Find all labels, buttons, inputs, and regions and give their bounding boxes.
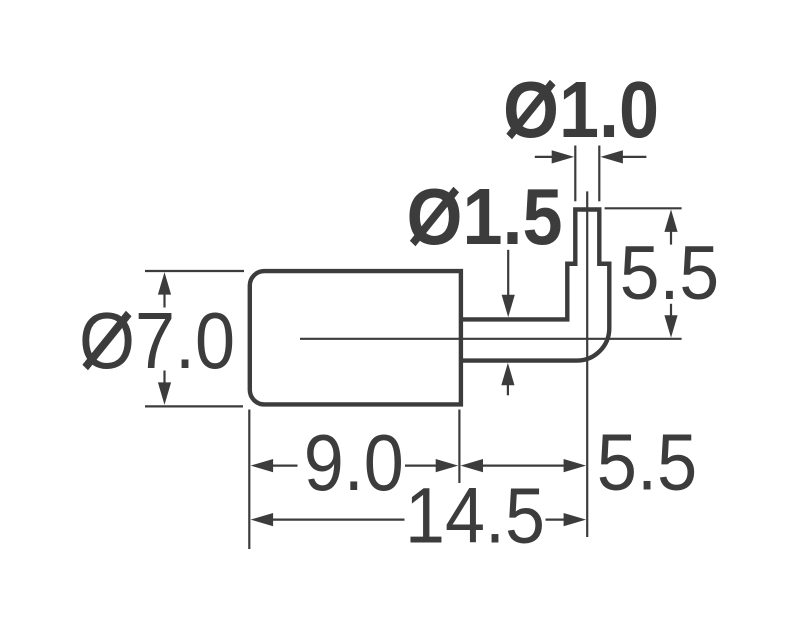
upper 5.5 down arrow (664, 315, 677, 338)
dia 7.0 top extension line (145, 270, 244, 272)
dia 1.0 right arrow (600, 150, 623, 163)
dia 1.5 up arrow (501, 363, 514, 386)
svg-text:9.0: 9.0 (304, 419, 404, 508)
bottom 5.5 dimension right arrow (564, 459, 587, 472)
bottom 5.5 dimension line (480, 465, 567, 467)
dia 1.0 left arrow (552, 150, 575, 163)
dia 7.0 slash (85, 314, 129, 368)
dia 1.5 slash (413, 190, 457, 244)
9.0 dimension left arrow (251, 459, 274, 472)
dia 1.5 down arrow (502, 295, 515, 318)
upper 5.5 top extension line (605, 207, 682, 209)
svg-text:14.5: 14.5 (405, 472, 545, 560)
14.5 dimension right arrow (564, 513, 587, 526)
dia 7.0 bottom extension line (145, 405, 243, 407)
dia 7.0 down arrow (158, 382, 171, 405)
9.0 dimension right arrow (436, 459, 459, 472)
dia 1.0 right extension line (598, 146, 600, 202)
middle bottom extension line (458, 410, 460, 484)
dia 7.0 label (79, 297, 235, 386)
dia 1.0 left extension line (574, 146, 576, 202)
14.5 dimension left arrow (251, 513, 274, 526)
vertical centerline (586, 191, 588, 537)
svg-text:5.5: 5.5 (620, 230, 719, 316)
component body outline (250, 271, 461, 404)
dia 7.0 up arrow (158, 272, 171, 295)
upper 5.5 up arrow (664, 209, 677, 232)
horizontal centerline (300, 338, 682, 340)
bent lead wire outline (461, 210, 609, 361)
dia 1.0 label (503, 66, 659, 155)
svg-text:5.5: 5.5 (597, 418, 698, 507)
dia 1.5 label (406, 173, 562, 262)
left bottom extension line (248, 410, 250, 550)
bottom 5.5 dimension left arrow (461, 459, 484, 472)
dia 1.0 slash (509, 83, 553, 137)
